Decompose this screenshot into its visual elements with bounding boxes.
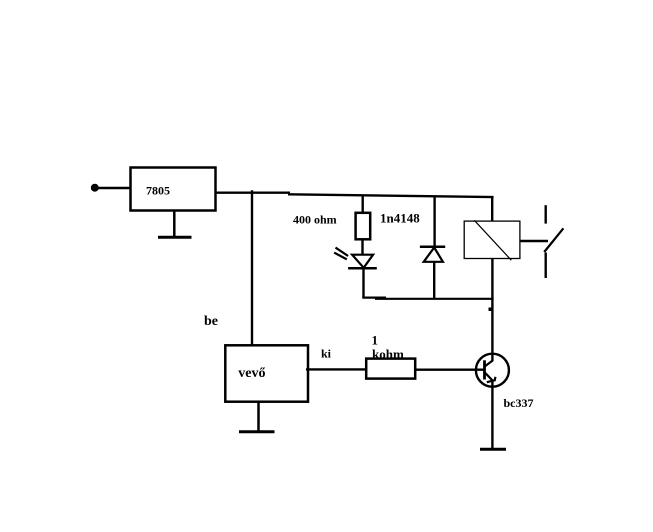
- LED D1 cathode bar: [348, 267, 377, 270]
- wire 7805 to ground: [173, 211, 176, 237]
- svg-text:1n4148: 1n4148: [380, 211, 420, 226]
- bottom rail right part: [375, 298, 494, 300]
- switch lever: [544, 228, 563, 252]
- Q1 emitter diagonal: [485, 373, 493, 381]
- wire top rail to relay: [491, 196, 493, 222]
- receiver box vevo: [225, 345, 308, 401]
- wire node to receiver (be line): [251, 190, 253, 346]
- relay K1 box: [464, 221, 520, 258]
- Q1 collector diagonal: [485, 360, 493, 366]
- stray mark on collector wire: [489, 308, 493, 312]
- svg-text:be: be: [204, 314, 218, 329]
- bottom rail: [362, 297, 386, 299]
- LED light ray 1: [336, 248, 349, 256]
- svg-text:bc337: bc337: [504, 396, 534, 410]
- switch lower contact: [545, 253, 547, 279]
- wire 400ohm to LED: [361, 239, 363, 255]
- Q1 emitter lead: [491, 380, 493, 449]
- wire relay to collector: [491, 259, 493, 362]
- ground under 7805: [158, 236, 192, 239]
- transistor Q1 circle: [476, 354, 509, 387]
- resistor R1 400 ohm box: [356, 213, 371, 240]
- ground under vevo: [239, 430, 275, 433]
- wire LED to bottom rail: [362, 268, 364, 298]
- input terminal dot: [91, 184, 99, 192]
- LED D1 triangle: [352, 255, 373, 268]
- regulator U1 7805 box: [131, 168, 216, 211]
- wire top rail to 1n4148: [433, 196, 435, 247]
- ground under Q1: [480, 448, 506, 451]
- diode D2 triangle: [424, 248, 443, 262]
- svg-text:ki: ki: [321, 347, 332, 361]
- svg-text:400 ohm: 400 ohm: [293, 213, 337, 227]
- wire vevo to ground: [257, 402, 260, 432]
- diode D2 cathode bar: [420, 246, 445, 249]
- wire 7805 output (top rail left): [216, 191, 291, 193]
- wire top rail right: [288, 194, 494, 197]
- wire relay to switch: [520, 240, 548, 243]
- wire top rail to 400ohm: [362, 196, 364, 214]
- Q1 base bar: [483, 360, 486, 379]
- Q1 emitter arrow: [487, 377, 496, 382]
- switch upper contact: [545, 205, 547, 223]
- resistor R2 1 kohm box: [366, 359, 415, 379]
- wire 1kohm to base: [415, 369, 484, 371]
- relay diagonal: [474, 220, 511, 260]
- svg-text:vevő: vevő: [238, 366, 265, 381]
- wire 1n4148 to bottom rail: [433, 262, 435, 299]
- wire vevo output ki: [306, 368, 367, 370]
- wire input dot to 7805: [98, 187, 131, 190]
- LED light ray 2: [334, 253, 347, 260]
- svg-text:7805: 7805: [146, 184, 170, 198]
- svg-text:1: 1: [372, 333, 379, 348]
